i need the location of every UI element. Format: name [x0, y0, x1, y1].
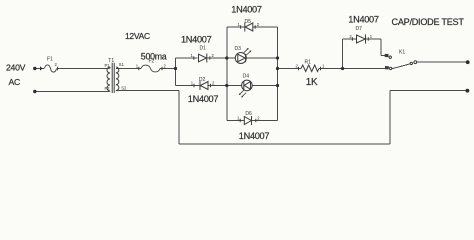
svg-text:D5: D5: [245, 19, 252, 25]
svg-text:P1: P1: [105, 63, 111, 68]
svg-text:F2: F2: [149, 58, 155, 64]
svg-text:P2: P2: [105, 86, 111, 91]
svg-text:D2: D2: [199, 77, 206, 83]
svg-text:240V: 240V: [6, 62, 26, 72]
svg-text:CAP/DIODE TEST: CAP/DIODE TEST: [392, 17, 465, 27]
svg-text:S1: S1: [119, 62, 125, 67]
svg-text:1N4007: 1N4007: [181, 34, 212, 44]
svg-text:1N4007: 1N4007: [231, 5, 262, 15]
svg-text:D3: D3: [235, 46, 242, 52]
svg-text:D6: D6: [245, 111, 252, 117]
svg-text:1N4007: 1N4007: [348, 15, 379, 25]
svg-text:1N4007: 1N4007: [188, 94, 219, 104]
svg-text:D1: D1: [200, 46, 207, 52]
svg-text:AC: AC: [9, 77, 20, 87]
svg-text:1K: 1K: [306, 77, 318, 88]
svg-text:D4: D4: [243, 74, 250, 80]
svg-text:F1: F1: [47, 57, 53, 63]
svg-text:1N4007: 1N4007: [239, 131, 270, 141]
svg-text:12VAC: 12VAC: [125, 31, 150, 41]
svg-text:R1: R1: [305, 59, 312, 65]
svg-text:D7: D7: [356, 26, 363, 32]
svg-text:K1: K1: [399, 50, 405, 56]
svg-text:S2: S2: [121, 86, 127, 91]
